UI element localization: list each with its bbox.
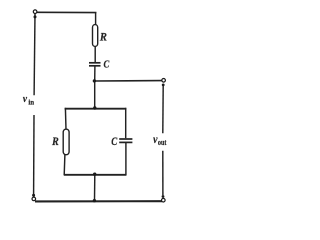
- capacitor C1 bottom plate: [89, 65, 101, 67]
- junction dot loop top: [93, 106, 96, 109]
- svg-text:C: C: [111, 136, 118, 148]
- terminal circle bottom-right: [162, 198, 166, 202]
- wire junction down to loop top: [94, 81, 96, 108]
- wire loop right lower: [125, 143, 127, 175]
- junction dot loop bottom: [93, 173, 96, 176]
- wire loop left upper: [64, 108, 67, 130]
- wire left vertical upper (v_in): [33, 14, 36, 96]
- svg-text:in: in: [28, 97, 34, 107]
- dot above bottom-right terminal: [162, 195, 165, 198]
- wire C1 to junction: [94, 67, 96, 82]
- dot below top-left terminal: [34, 15, 37, 18]
- terminal circle bottom-left: [32, 197, 36, 201]
- capacitor C1 (series) top plate: [89, 62, 101, 64]
- capacitor C2 bottom plate: [119, 141, 132, 143]
- junction dot below C1: [93, 79, 96, 82]
- terminal circle top-right: [162, 79, 166, 83]
- svg-text:out: out: [158, 137, 167, 147]
- resistor R2 (parallel): [63, 129, 69, 155]
- svg-text:v: v: [23, 93, 28, 105]
- wire bottom rail: [35, 200, 162, 202]
- wire loop right upper: [125, 108, 127, 138]
- svg-text:R: R: [51, 135, 59, 148]
- wire loop bottom: [64, 174, 127, 176]
- wire R1 to C1: [94, 46, 96, 62]
- wire middle horizontal junction to v_out terminal: [94, 80, 162, 82]
- wire loop left lower: [63, 154, 66, 175]
- wire left vertical lower (v_in): [33, 115, 35, 195]
- wire loop top: [65, 108, 127, 110]
- svg-text:v: v: [153, 133, 158, 146]
- wire right vertical lower (v_out): [162, 151, 164, 196]
- junction dot bottom rail: [93, 199, 96, 202]
- wire loop bottom to rail: [94, 175, 96, 201]
- svg-text:C: C: [104, 59, 110, 71]
- dot below top-right terminal: [162, 84, 165, 87]
- dot above bottom-left terminal: [32, 194, 35, 197]
- capacitor C2 (parallel) top plate: [119, 138, 132, 140]
- svg-text:R: R: [99, 31, 107, 43]
- wire top horizontal from v_in terminal to R: [37, 11, 97, 13]
- resistor R1 (series): [93, 25, 98, 47]
- terminal circle top-left: [33, 10, 37, 14]
- wire right vertical upper (v_out): [162, 85, 164, 134]
- wire top vertical into R: [95, 12, 97, 26]
